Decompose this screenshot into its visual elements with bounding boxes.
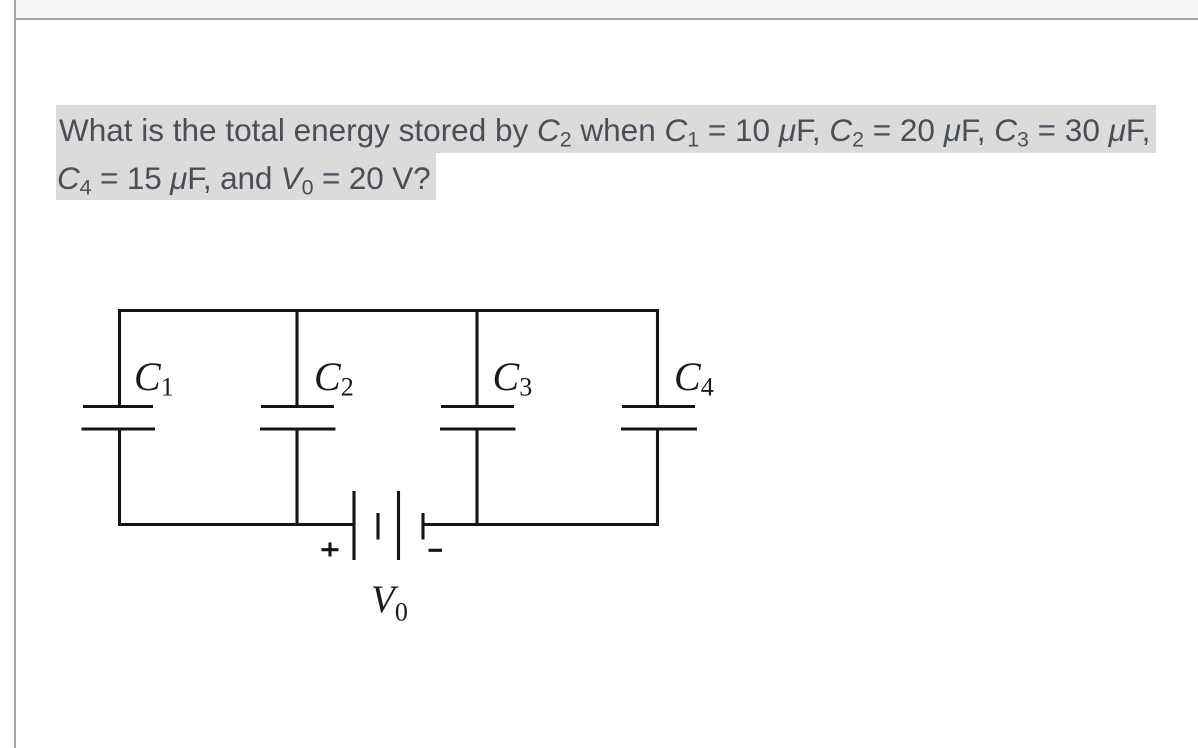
capacitor C1 plates	[83, 405, 153, 408]
svg-text:V0: V0	[371, 578, 408, 627]
svg-text:C3: C3	[493, 354, 533, 402]
svg-text:C2: C2	[314, 354, 354, 402]
plus sign	[322, 548, 339, 551]
wire: bottom rail right	[423, 523, 659, 526]
capacitor C2 plates	[261, 405, 334, 408]
minus sign	[429, 549, 443, 552]
wire: C3 bottom branch	[475, 429, 478, 525]
top gray strip	[16, 0, 1198, 20]
svg-text:C4: C4	[674, 354, 714, 402]
svg-text:C1: C1	[134, 354, 174, 402]
left page border	[14, 0, 16, 748]
wire: C4 bottom branch	[656, 429, 659, 525]
battery V0 long plate 2	[397, 491, 400, 560]
wire: C2 top branch	[295, 311, 298, 407]
wire: C3 top branch	[475, 311, 478, 407]
capacitor C3 plates	[441, 405, 514, 408]
wire: C1 bottom branch	[118, 429, 121, 525]
battery V0 long plate 1	[352, 491, 355, 560]
question text line 2 (highlighted)	[56, 153, 436, 200]
battery V0 short plate 1	[376, 513, 379, 540]
question text line 1 (highlighted)	[56, 105, 1156, 153]
battery V0 short plate 2	[421, 513, 424, 540]
wire: bottom rail left	[118, 523, 354, 526]
wire: top rail	[120, 311, 658, 407]
capacitor C4 plates	[622, 405, 695, 408]
wire: C2 bottom branch	[295, 429, 298, 525]
